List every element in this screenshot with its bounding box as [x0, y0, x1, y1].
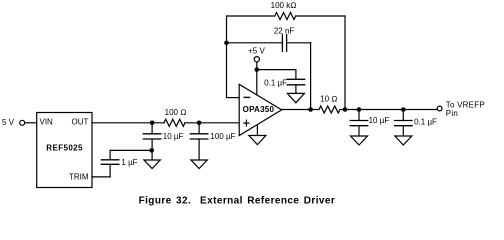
- svg-text:OUT: OUT: [72, 118, 89, 127]
- svg-text:10 Ω: 10 Ω: [320, 95, 337, 104]
- svg-text:10 µF: 10 µF: [369, 116, 390, 125]
- svg-text:TRIM: TRIM: [69, 173, 89, 182]
- svg-text:0.1 µF: 0.1 µF: [414, 118, 437, 127]
- svg-text:0.1 µF: 0.1 µF: [264, 78, 287, 87]
- svg-text:+5 V: +5 V: [248, 47, 265, 56]
- svg-text:VIN: VIN: [40, 117, 54, 126]
- svg-text:OPA350: OPA350: [243, 105, 275, 114]
- svg-text:100 µF: 100 µF: [210, 132, 235, 141]
- svg-text:Figure 32. External Reference: Figure 32. External Reference Driver: [139, 195, 336, 206]
- svg-text:Pin: Pin: [446, 109, 458, 118]
- svg-text:100 Ω: 100 Ω: [165, 108, 187, 117]
- svg-text:REF5025: REF5025: [46, 144, 83, 153]
- svg-text:22 nF: 22 nF: [274, 26, 295, 35]
- svg-text:5 V: 5 V: [2, 118, 15, 127]
- svg-text:100 kΩ: 100 kΩ: [271, 1, 297, 10]
- svg-text:10 µF: 10 µF: [163, 132, 184, 141]
- svg-text:1 µF: 1 µF: [121, 158, 137, 167]
